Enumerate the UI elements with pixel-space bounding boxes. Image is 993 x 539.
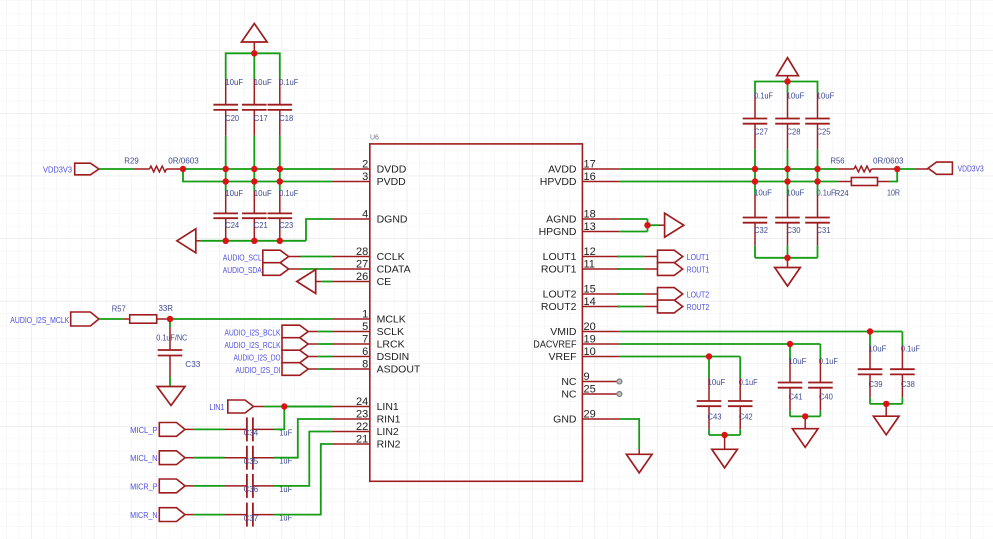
pin 17 AVDD (right) xyxy=(582,168,619,170)
svg-text:5: 5 xyxy=(362,321,368,333)
svg-text:LIN1: LIN1 xyxy=(377,401,399,413)
svg-text:10uF: 10uF xyxy=(254,188,272,198)
svg-text:10uF: 10uF xyxy=(869,344,887,354)
wire C41/C40 bottom rail xyxy=(790,415,820,417)
svg-text:NC: NC xyxy=(561,376,577,388)
wire to VDD3V3 flag xyxy=(897,168,915,170)
ground C43/C42 xyxy=(724,435,726,449)
svg-text:C28: C28 xyxy=(787,127,801,137)
pin 14 ROUT2 (right) xyxy=(582,306,619,308)
wire AUDIO_I2S_MCLK to R57 xyxy=(99,318,123,320)
svg-text:R57: R57 xyxy=(112,304,126,314)
wire DGND to pin 4 xyxy=(306,219,333,241)
svg-text:0R/0603: 0R/0603 xyxy=(168,156,199,166)
net flag VDD3V3 (left) xyxy=(75,163,99,175)
resistor R24 10R xyxy=(838,181,851,183)
ground AGND bank xyxy=(787,258,789,268)
svg-text:VREF: VREF xyxy=(548,351,576,363)
wire C30 to bottom rail xyxy=(787,246,789,258)
net flag AUDIO_I2S_DI xyxy=(282,363,308,376)
svg-text:0.1uF: 0.1uF xyxy=(754,91,773,101)
svg-text:10uF: 10uF xyxy=(787,91,805,101)
svg-text:29: 29 xyxy=(584,409,596,421)
pin 27 CDATA (left) xyxy=(333,268,370,270)
svg-text:PVDD: PVDD xyxy=(377,176,407,188)
net flag MICL_P xyxy=(159,423,185,437)
net flag LOUT1 xyxy=(617,256,619,258)
svg-text:AUDIO_I2S_BCLK: AUDIO_I2S_BCLK xyxy=(225,328,281,338)
capacitor C17 10uF xyxy=(253,79,255,105)
capacitor C21 10uF xyxy=(253,182,255,192)
capacitor C23 0.1uF xyxy=(279,182,281,192)
wire AUDIO_SDA to CDATA xyxy=(289,268,301,270)
pin 22 LIN2 (left) xyxy=(333,431,370,433)
capacitor C41 10uF xyxy=(789,344,791,360)
junctions AVDD/HPVDD rows xyxy=(754,169,756,182)
svg-text:22: 22 xyxy=(356,421,368,433)
svg-text:16: 16 xyxy=(584,171,596,183)
svg-text:C38: C38 xyxy=(901,379,915,389)
pin 6 DSDIN (left) xyxy=(333,356,370,358)
wire HPVDD row xyxy=(619,181,838,183)
svg-text:HPVDD: HPVDD xyxy=(540,176,577,188)
svg-text:SCLK: SCLK xyxy=(377,326,404,338)
svg-text:R56: R56 xyxy=(831,156,845,166)
capacitor C43 10uF xyxy=(708,357,710,379)
svg-text:26: 26 xyxy=(356,271,368,283)
svg-text:17: 17 xyxy=(584,159,596,171)
svg-text:11: 11 xyxy=(584,259,595,271)
svg-text:0.1uF: 0.1uF xyxy=(819,356,838,366)
junctions DVDD/PVDD rows xyxy=(225,169,227,182)
pin 4 DGND (left) xyxy=(333,218,370,220)
capacitor C30 10uF xyxy=(787,182,789,195)
svg-text:C18: C18 xyxy=(279,113,293,123)
ground DGND (left triangle) xyxy=(177,229,196,253)
svg-text:24: 24 xyxy=(356,396,368,408)
svg-text:C17: C17 xyxy=(254,113,268,123)
pin 19 DACVREF (right) xyxy=(582,343,619,345)
svg-text:ROUT1: ROUT1 xyxy=(541,264,577,276)
ground GND pin 29 xyxy=(638,449,640,454)
capacitor C39 10uF xyxy=(869,332,871,347)
pin 21 RIN2 (left) xyxy=(333,443,370,445)
svg-text:CDATA: CDATA xyxy=(377,264,411,276)
capacitor C20 10uF xyxy=(225,79,227,105)
pin 7 LRCK (left) xyxy=(333,343,370,345)
power flag VDD3V3 (top right) xyxy=(777,58,799,76)
wire AUDIO_SCL to CCLK xyxy=(289,256,301,258)
no-connect pin 9 xyxy=(617,379,622,384)
junction dots xyxy=(251,50,257,56)
wire AUDIO_I2S_RCLK xyxy=(308,343,318,345)
wire MICR_P to C36 xyxy=(185,485,193,487)
wire pin row to C39/C38 xyxy=(619,331,902,333)
pin 3 PVDD (left) xyxy=(333,181,370,183)
svg-text:CCLK: CCLK xyxy=(377,251,405,263)
pin 23 RIN1 (left) xyxy=(333,418,370,420)
svg-text:C43: C43 xyxy=(708,412,722,422)
svg-text:10uF: 10uF xyxy=(708,377,726,387)
resistor R56 0R/0603 xyxy=(837,168,854,170)
no-connect pin 25 xyxy=(617,392,622,397)
svg-text:LOUT1: LOUT1 xyxy=(687,252,710,262)
svg-text:C34: C34 xyxy=(244,428,259,438)
svg-text:AVDD: AVDD xyxy=(548,164,577,176)
svg-text:VMID: VMID xyxy=(550,326,577,338)
svg-text:14: 14 xyxy=(584,296,596,308)
net flag AUDIO_SCL xyxy=(263,250,289,263)
svg-text:10uF: 10uF xyxy=(754,188,772,198)
svg-text:C39: C39 xyxy=(869,379,883,389)
svg-text:10: 10 xyxy=(584,346,596,358)
net flag AUDIO_SDA xyxy=(263,263,289,276)
wire MCLK row xyxy=(170,318,333,320)
capacitor C42 0.1uF xyxy=(739,357,741,379)
wire pin row to C41/C40 xyxy=(619,343,820,345)
svg-text:10uF: 10uF xyxy=(817,91,835,101)
svg-text:LRCK: LRCK xyxy=(377,339,405,351)
svg-text:AUDIO_I2S_DO: AUDIO_I2S_DO xyxy=(234,353,281,363)
svg-text:ROUT2: ROUT2 xyxy=(687,302,710,312)
pin 24 LIN1 (left) xyxy=(333,406,370,408)
capacitor C33 0.1uF/NC xyxy=(169,319,171,327)
net flag MICR_N xyxy=(159,508,185,522)
svg-text:28: 28 xyxy=(356,246,368,258)
svg-text:19: 19 xyxy=(584,334,596,346)
svg-text:18: 18 xyxy=(584,209,596,221)
svg-text:R29: R29 xyxy=(124,156,139,166)
pin 16 HPVDD (right) xyxy=(582,181,619,183)
wire R24 to AVDD node xyxy=(889,169,897,182)
svg-text:C33: C33 xyxy=(185,359,200,369)
svg-text:LOUT1: LOUT1 xyxy=(543,251,577,263)
net flag AUDIO_I2S_MCLK xyxy=(71,312,99,326)
wire CE xyxy=(322,281,333,283)
wire LIN1 row xyxy=(254,406,264,408)
svg-text:0.1uF: 0.1uF xyxy=(739,377,758,387)
svg-text:DGND: DGND xyxy=(377,214,408,226)
svg-text:HPGND: HPGND xyxy=(539,226,577,238)
svg-text:DACVREF: DACVREF xyxy=(533,339,576,351)
pin 18 AGND (right) xyxy=(582,218,619,220)
svg-text:10uF: 10uF xyxy=(787,188,805,198)
wire MICL_P to C34 xyxy=(185,428,193,430)
svg-text:C24: C24 xyxy=(225,220,239,230)
wire AVDD row xyxy=(619,168,837,170)
pin 1 MCLK (left) xyxy=(333,318,370,320)
wire AGND xyxy=(619,218,647,220)
pin 12 LOUT1 (right) xyxy=(582,256,619,258)
svg-text:C30: C30 xyxy=(787,225,801,235)
svg-text:20: 20 xyxy=(584,321,596,333)
ground AGND (right triangle) xyxy=(648,224,660,226)
svg-text:LOUT2: LOUT2 xyxy=(543,289,577,301)
svg-text:MCLK: MCLK xyxy=(377,314,406,326)
capacitor C27 0.1uF xyxy=(754,93,756,119)
wire C32 to bottom rail xyxy=(754,246,756,258)
power flag VDD3V3 (top left) xyxy=(242,24,268,43)
net flag AUDIO_I2S_RCLK xyxy=(282,338,308,351)
net flag ROUT1 xyxy=(617,268,619,270)
wire C33 to ground xyxy=(169,377,171,386)
capacitor C40 0.1uF xyxy=(819,344,821,360)
pin 11 ROUT1 (right) xyxy=(582,268,619,270)
net flag LIN1 xyxy=(228,400,254,413)
wire C34 riser to pin xyxy=(274,407,333,430)
svg-text:AUDIO_SDA: AUDIO_SDA xyxy=(223,265,262,275)
pin 26 CE (left) xyxy=(333,281,370,283)
svg-text:C20: C20 xyxy=(225,113,239,123)
svg-text:DSDIN: DSDIN xyxy=(377,351,410,363)
wire C36 riser to pin xyxy=(274,432,333,486)
wire PVDD branch xyxy=(183,169,333,182)
capacitor C28 10uF xyxy=(787,93,789,119)
svg-text:GND: GND xyxy=(553,414,577,426)
svg-text:NC: NC xyxy=(561,389,577,401)
svg-text:LIN2: LIN2 xyxy=(377,426,399,438)
svg-text:AGND: AGND xyxy=(546,214,577,226)
svg-text:C35: C35 xyxy=(244,456,259,466)
resistor R57 33R xyxy=(123,318,130,320)
net flag AUDIO_I2S_BCLK xyxy=(282,325,308,338)
svg-text:C42: C42 xyxy=(739,412,753,422)
wire AUDIO_I2S_DO xyxy=(308,356,318,358)
svg-text:C37: C37 xyxy=(244,513,259,523)
pin 20 VMID (right) xyxy=(582,331,619,333)
svg-text:6: 6 xyxy=(362,346,368,358)
wire HPGND xyxy=(619,231,647,233)
svg-text:10uF: 10uF xyxy=(225,188,243,198)
pin 5 SCLK (left) xyxy=(333,331,370,333)
wire C17 to DVDD rail xyxy=(253,136,255,169)
svg-text:0.1uF: 0.1uF xyxy=(279,188,298,198)
pin 25 NC (right) xyxy=(582,393,619,395)
capacitor C24 10uF xyxy=(225,182,227,192)
svg-text:C40: C40 xyxy=(819,392,833,402)
svg-text:12: 12 xyxy=(584,246,596,258)
pin 15 LOUT2 (right) xyxy=(582,293,619,295)
wire C28 to AVDD rail xyxy=(787,149,789,169)
svg-text:LIN1: LIN1 xyxy=(209,402,224,412)
wire GND pin 29 xyxy=(619,419,639,449)
svg-text:C27: C27 xyxy=(754,127,768,137)
capacitor C31 0.1uF xyxy=(817,182,819,195)
capacitor C36 1uF xyxy=(225,485,247,487)
net flag AUDIO_I2S_DO xyxy=(282,350,308,363)
svg-text:VDD3V3: VDD3V3 xyxy=(43,165,72,175)
svg-text:2: 2 xyxy=(362,159,368,171)
capacitor C37 1uF xyxy=(225,514,247,516)
capacitor C38 0.1uF xyxy=(901,332,903,347)
ground C41/C40 xyxy=(804,416,806,428)
pin 28 CCLK (left) xyxy=(333,256,370,258)
wire C35 riser to pin xyxy=(274,419,333,458)
ground C33 xyxy=(157,387,185,406)
svg-text:C23: C23 xyxy=(279,220,293,230)
svg-text:10uF: 10uF xyxy=(225,77,243,87)
svg-text:23: 23 xyxy=(356,409,368,421)
wire DVDD row xyxy=(183,168,333,170)
net flag LOUT2 xyxy=(617,293,619,295)
svg-text:C31: C31 xyxy=(817,225,831,235)
svg-text:MICR_N: MICR_N xyxy=(130,510,158,520)
wire VDD3V3 to R29 xyxy=(99,168,133,170)
wire pin row to C43/C42 xyxy=(619,356,740,358)
capacitor C34 1uF xyxy=(225,428,247,430)
pin 8 ASDOUT (left) xyxy=(333,368,370,370)
pin 13 HPGND (right) xyxy=(582,231,619,233)
wire AGND-HPGND tie xyxy=(647,219,649,232)
svg-text:MICR_P: MICR_P xyxy=(130,481,158,491)
wire C18 to DVDD rail xyxy=(279,136,281,169)
wire MICL_N to C35 xyxy=(185,457,193,459)
net flag ROUT2 xyxy=(617,306,619,308)
svg-text:0.1uF: 0.1uF xyxy=(901,344,920,354)
svg-text:13: 13 xyxy=(584,221,596,233)
svg-text:U6: U6 xyxy=(370,135,379,142)
wire AUDIO_I2S_BCLK xyxy=(308,331,318,333)
svg-text:0R/0603: 0R/0603 xyxy=(873,156,904,166)
capacitor C25 10uF xyxy=(817,93,819,119)
net flag MICL_N xyxy=(159,451,185,465)
IC U6 audio codec body xyxy=(370,144,583,481)
svg-text:1: 1 xyxy=(362,309,368,321)
svg-text:33R: 33R xyxy=(158,303,173,313)
net flag MICR_P xyxy=(159,479,185,493)
wire MICR_N to C37 xyxy=(185,514,193,516)
svg-text:4: 4 xyxy=(362,209,368,221)
svg-text:RIN2: RIN2 xyxy=(377,439,401,451)
svg-text:VDD3V3: VDD3V3 xyxy=(958,164,985,174)
wire top right rail xyxy=(755,82,818,93)
svg-text:9: 9 xyxy=(584,371,590,383)
svg-text:21: 21 xyxy=(356,434,368,446)
wire AUDIO_I2S_DI xyxy=(308,368,318,370)
wire bottom rail DGND xyxy=(200,240,306,242)
resistor R29 0R/0603 xyxy=(133,168,149,170)
wire bottom right rail xyxy=(755,257,818,259)
capacitor C35 1uF xyxy=(225,457,247,459)
wire C25 to AVDD rail xyxy=(817,149,819,169)
ground C39/C38 xyxy=(885,404,887,416)
wire C39/C38 bottom rail xyxy=(870,403,902,405)
svg-text:AUDIO_SCL: AUDIO_SCL xyxy=(223,252,262,262)
svg-text:15: 15 xyxy=(584,284,596,296)
svg-text:7: 7 xyxy=(362,334,368,346)
svg-text:ASDOUT: ASDOUT xyxy=(377,364,421,376)
ground CE (left triangle) xyxy=(297,270,316,294)
svg-text:C25: C25 xyxy=(817,127,831,137)
svg-text:0.1uF/NC: 0.1uF/NC xyxy=(156,333,187,343)
svg-text:27: 27 xyxy=(356,259,368,271)
svg-text:LOUT2: LOUT2 xyxy=(687,290,710,300)
svg-text:0.1uF: 0.1uF xyxy=(279,77,298,87)
svg-text:CE: CE xyxy=(377,276,392,288)
svg-text:C21: C21 xyxy=(254,220,268,230)
net flag VDD3V3 (right) xyxy=(915,168,928,170)
pin 29 GND (right) xyxy=(582,418,619,420)
wire C31 to bottom rail xyxy=(817,246,819,258)
svg-text:R24: R24 xyxy=(835,188,849,198)
svg-text:8: 8 xyxy=(362,359,368,371)
wire C20 to DVDD rail xyxy=(225,136,227,169)
svg-text:C36: C36 xyxy=(244,484,259,494)
svg-text:DVDD: DVDD xyxy=(377,164,407,176)
svg-text:25: 25 xyxy=(584,384,596,396)
wire C43/C42 bottom rail xyxy=(709,434,740,436)
svg-text:3: 3 xyxy=(362,171,368,183)
svg-text:10uF: 10uF xyxy=(789,356,807,366)
svg-text:ROUT2: ROUT2 xyxy=(541,301,577,313)
svg-text:MICL_N: MICL_N xyxy=(130,453,158,463)
capacitor C32 10uF xyxy=(754,182,756,195)
pin 10 VREF (right) xyxy=(582,356,619,358)
svg-text:10R: 10R xyxy=(887,188,900,198)
svg-text:AUDIO_I2S_RCLK: AUDIO_I2S_RCLK xyxy=(225,340,281,350)
svg-text:MICL_P: MICL_P xyxy=(130,425,158,435)
svg-text:0.1uF: 0.1uF xyxy=(817,188,836,198)
svg-text:C32: C32 xyxy=(754,225,768,235)
wire top rail xyxy=(226,53,280,79)
capacitor C18 0.1uF xyxy=(279,79,281,105)
svg-text:AUDIO_I2S_DI: AUDIO_I2S_DI xyxy=(236,365,281,375)
svg-text:ROUT1: ROUT1 xyxy=(687,265,710,275)
svg-text:C41: C41 xyxy=(789,392,803,402)
pin 9 NC (right) xyxy=(582,381,619,383)
svg-text:AUDIO_I2S_MCLK: AUDIO_I2S_MCLK xyxy=(10,315,69,325)
svg-text:RIN1: RIN1 xyxy=(377,414,401,426)
wire C27 to AVDD rail xyxy=(754,149,756,169)
pin 2 DVDD (left) xyxy=(333,168,370,170)
wire C37 riser to pin xyxy=(274,444,333,515)
svg-text:10uF: 10uF xyxy=(254,77,272,87)
